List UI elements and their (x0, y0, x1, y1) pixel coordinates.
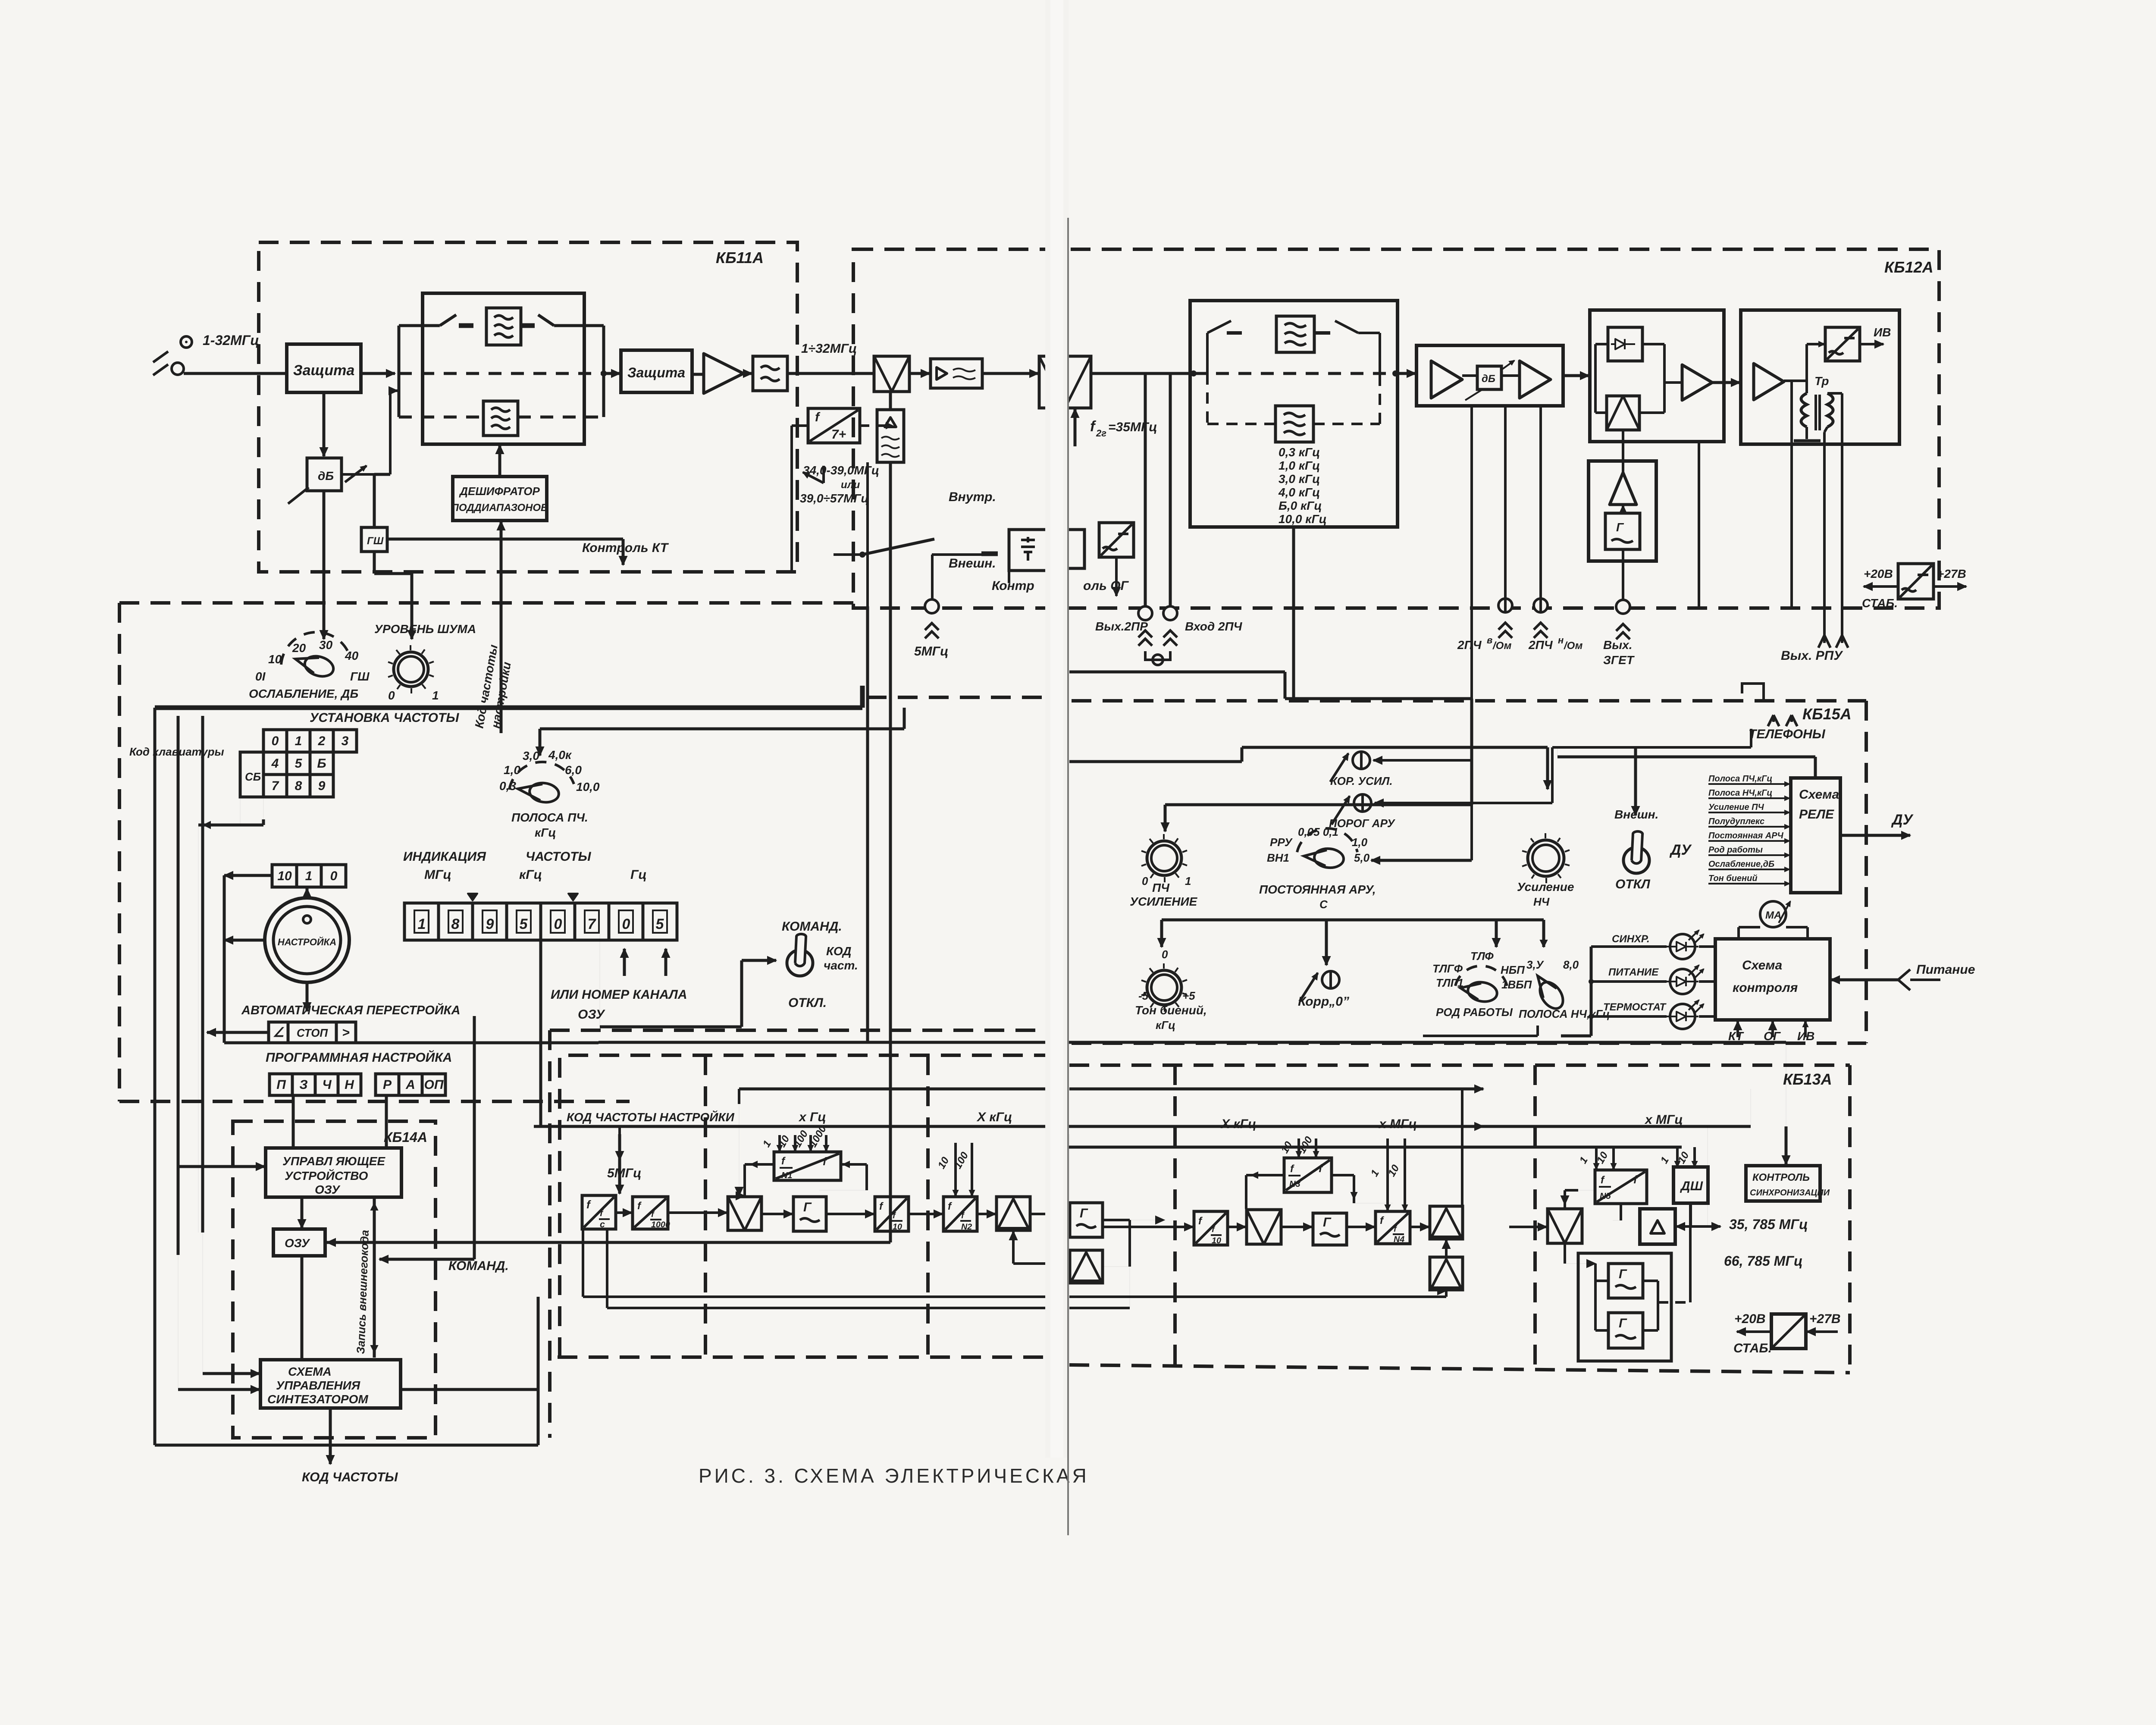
amplifier A6 (1610, 473, 1636, 505)
amplifier A4.1 (1431, 361, 1462, 398)
svg-text:=35МГц: =35МГц (1108, 420, 1157, 434)
block AGC detector group U8 (1590, 310, 1724, 442)
filter Z3 output lowpass (753, 356, 787, 391)
wire lower bracket (1162, 919, 1544, 922)
label +20В stab2 (1737, 1330, 1771, 1333)
arrow heterodyne range (803, 472, 824, 483)
wire N1 feedback (745, 1163, 773, 1166)
mixer up 2 U32 (1430, 1257, 1463, 1290)
svg-text:или: или (841, 479, 860, 491)
svg-text:ИВ: ИВ (1874, 326, 1891, 339)
label +27В (1934, 585, 1966, 588)
svg-text:УСТАНОВКА ЧАСТОТЫ: УСТАНОВКА ЧАСТОТЫ (310, 711, 459, 725)
svg-text:Контр: Контр (992, 579, 1034, 593)
svg-text:УПРАВЛЕНИЯ: УПРАВЛЕНИЯ (276, 1379, 360, 1392)
svg-text:РЕЛЕ: РЕЛЕ (1799, 807, 1834, 822)
screw КОР УСИЛ (1353, 752, 1370, 769)
wire kb13 left out (596, 1040, 597, 1041)
preset row 10/1/0 (272, 865, 297, 887)
wire ОЗУ right (327, 1241, 890, 1244)
wire divider dashed out (860, 424, 893, 427)
wire команд long line (599, 1041, 1786, 1044)
wire настройка down (306, 982, 309, 1011)
svg-text:N2: N2 (961, 1222, 972, 1232)
wire led common (1590, 947, 1593, 1036)
block output amplifier group A7 (1741, 310, 1899, 444)
svg-text:4,0 кГц: 4,0 кГц (1278, 486, 1320, 499)
svg-text:9: 9 (486, 916, 494, 932)
wire f2 column down (866, 462, 869, 606)
svg-text:ОЗУ: ОЗУ (315, 1183, 341, 1196)
wires 1 10 into N5 (1595, 1147, 1598, 1169)
wire lower path dashed (399, 416, 483, 419)
block reference capacitor oscillator (1009, 530, 1047, 571)
svg-text:7+: 7+ (831, 427, 846, 442)
wire дБ to subband filter bank (342, 473, 390, 476)
svg-text:кГц: кГц (519, 868, 542, 882)
panel divider dashed (867, 696, 1045, 699)
svg-text:Внешн.: Внешн. (1614, 808, 1658, 821)
svg-text:0,05 0,1: 0,05 0,1 (1298, 825, 1338, 838)
svg-text:НЧ: НЧ (1533, 895, 1550, 908)
mixer U5 first mixer (874, 356, 909, 392)
svg-text:Усиление ПЧ: Усиление ПЧ (1708, 803, 1764, 812)
svg-text:Вход 2ПЧ: Вход 2ПЧ (1185, 620, 1243, 633)
svg-text:АВТОМАТИЧЕСКАЯ ПЕРЕСТРОЙКА: АВТОМАТИЧЕСКАЯ ПЕРЕСТРОЙКА (241, 1002, 460, 1017)
svg-text:ОГ: ОГ (1764, 1029, 1781, 1043)
svg-text:Тр: Тр (1814, 374, 1829, 388)
svg-text:Защита: Защита (293, 362, 354, 379)
svg-text:дБ: дБ (318, 469, 334, 483)
block СХЕМА УПРАВЛЕНИЯ СИНТЕЗАТОРОМ U14 (260, 1360, 401, 1408)
wire agc internal (1595, 343, 1608, 345)
wire amp chain (1462, 374, 1477, 377)
wire ЗАЩИТА to filter group (361, 372, 395, 375)
arrows channel number (623, 949, 626, 976)
КБ13А right part boundary (1069, 1063, 1850, 1067)
wires 1 10 into ДШ (1676, 1147, 1679, 1167)
svg-text:ОЗУ: ОЗУ (578, 1007, 605, 1022)
wire mixer up input (1012, 1231, 1015, 1264)
block ДЕШИФРАТОР ПОДДИАПАЗОНОВ U3 (453, 477, 547, 521)
wire into divider (792, 424, 808, 427)
svg-text:ПОДДИАПАЗОНОВ: ПОДДИАПАЗОНОВ (451, 502, 548, 514)
wire Δ filter down (889, 462, 892, 606)
svg-text:контроля: контроля (1733, 981, 1798, 995)
svg-text:40: 40 (345, 649, 359, 662)
svg-text:+20В: +20В (1864, 567, 1893, 580)
svg-text:ПРОГРАММНАЯ НАСТРОЙКА: ПРОГРАММНАЯ НАСТРОЙКА (266, 1050, 452, 1065)
svg-text:1: 1 (295, 734, 302, 748)
generator Г U40 (1608, 1313, 1643, 1348)
svg-text:5МГц: 5МГц (914, 644, 948, 659)
svg-text:10: 10 (277, 869, 292, 883)
wire дш to delta (1689, 1203, 1692, 1226)
wire контроллер to ОЗУ (301, 1197, 304, 1228)
svg-text:ИВ: ИВ (1797, 1029, 1814, 1043)
svg-text:СИНХРОНИЗАЦИИ: СИНХРОНИЗАЦИИ (1750, 1188, 1830, 1198)
svg-text:1-32МГц: 1-32МГц (203, 332, 259, 348)
block СТАБ power converter U11 (1898, 564, 1934, 599)
feedthrough connector Вых ЗГЕТ (1616, 600, 1630, 614)
svg-text:КБ13А: КБ13А (1783, 1070, 1832, 1088)
svg-text:КБ12А: КБ12А (1884, 258, 1934, 276)
svg-text:8,0: 8,0 (1563, 958, 1579, 971)
svg-text:ТЛГФ: ТЛГФ (1432, 962, 1463, 975)
svg-text:ДШ: ДШ (1680, 1179, 1703, 1193)
amplifier A2 (704, 354, 743, 393)
svg-text:ОТКЛ.: ОТКЛ. (788, 996, 827, 1010)
svg-text:Защита: Защита (627, 365, 685, 380)
wire to amplifier (692, 373, 704, 376)
wire стоп left (207, 1031, 268, 1034)
wire upper bracket ПЧ усиление (1165, 803, 1472, 806)
svg-text:ПОЛОСА ПЧ.: ПОЛОСА ПЧ. (511, 811, 588, 824)
svg-text:КОД ЧАСТОТЫ: КОД ЧАСТОТЫ (302, 1470, 398, 1484)
svg-text:10,0: 10,0 (576, 780, 600, 793)
block ИВ converter U10 (1825, 327, 1860, 361)
wire 1-32МГц to mixer 1 (787, 372, 874, 375)
wire mixer down to Г block (1564, 1244, 1566, 1264)
svg-text:0: 0 (554, 916, 562, 932)
block СХЕМА РЕЛЕ U15 (1791, 778, 1840, 893)
block f/7+ divider U7 (808, 408, 860, 443)
svg-text:КБ15А: КБ15А (1802, 705, 1852, 723)
svg-text:ТЛФ: ТЛФ (1470, 950, 1494, 963)
amplifier A5 (1682, 365, 1712, 400)
svg-text:ГШ: ГШ (367, 535, 384, 547)
svg-text:Внутр.: Внутр. (949, 490, 996, 504)
svg-text:СТАБ.: СТАБ. (1733, 1341, 1772, 1355)
svg-text:ОЗУ: ОЗУ (285, 1236, 310, 1250)
svg-text:КОНТРОЛЬ: КОНТРОЛЬ (1752, 1172, 1810, 1183)
svg-text:8: 8 (451, 916, 460, 932)
wire down Вых 2ПР (1144, 373, 1147, 606)
svg-text:3,0: 3,0 (523, 749, 539, 762)
wire right page bus vertical (1750, 1089, 1751, 1126)
svg-text:Контроль КТ: Контроль КТ (582, 541, 669, 555)
module boundary КБ15А (1072, 699, 1866, 703)
wire кор усил (1373, 759, 1472, 762)
svg-text:X кГц: X кГц (1220, 1117, 1256, 1131)
wire 2ПЧ в/Ом (1504, 406, 1507, 612)
wire mixer2 out to IF connectors (1091, 372, 1170, 375)
wire mixer1 to Δ filter (889, 392, 892, 410)
svg-text:КОМАНД.: КОМАНД. (782, 919, 842, 934)
svg-text:-5: -5 (1138, 989, 1149, 1002)
svg-text:ПОЛОСА НЧ,кГц: ПОЛОСА НЧ,кГц (1519, 1007, 1610, 1020)
switch S1 upper path (399, 324, 440, 327)
block ГШ noise generator U4 (361, 527, 387, 552)
svg-text:1÷32МГц: 1÷32МГц (801, 342, 857, 356)
rotary ПОЛОСА НЧ (1535, 976, 1567, 1013)
generator Г U20 (793, 1197, 826, 1231)
block at seam (1059, 530, 1084, 568)
wire filter bank bottom to НЧ (1292, 527, 1295, 606)
wire delta out (1675, 1225, 1708, 1228)
wire synth long feedback top (533, 1126, 534, 1127)
svg-text:6,0: 6,0 (565, 763, 582, 777)
wire display down (539, 940, 542, 1126)
svg-text:УПРАВЛ ЯЮЩЕЕ: УПРАВЛ ЯЮЩЕЕ (282, 1154, 385, 1168)
wire mixer1 to amp filter (909, 372, 930, 375)
svg-text:1: 1 (418, 916, 426, 932)
label +27В stab2 (1807, 1330, 1838, 1333)
block ЗАЩИТА (input protection) U1 (287, 344, 361, 392)
svg-text:КОМАНД.: КОМАНД. (448, 1259, 509, 1273)
wire out amp (1784, 379, 1807, 382)
wire agc out (1712, 381, 1740, 384)
filter Z5 IF filter upper (1276, 316, 1314, 352)
wire N5 to delta (1620, 1204, 1622, 1220)
svg-text:3,У: 3,У (1526, 958, 1545, 971)
svg-text:СИНТЕЗАТОРОМ: СИНТЕЗАТОРОМ (267, 1393, 368, 1406)
svg-text:ИНДИКАЦИЯ: ИНДИКАЦИЯ (403, 850, 486, 864)
wire КОД ЧАСТОТЫ down (329, 1408, 332, 1464)
block amp+filter A3 (931, 359, 982, 388)
svg-text:10: 10 (893, 1222, 902, 1232)
svg-text:оль ОГ: оль ОГ (1083, 579, 1129, 593)
svg-text:ПОРОГ АРУ: ПОРОГ АРУ (1329, 817, 1396, 830)
svg-text:10: 10 (268, 652, 282, 666)
svg-text:0: 0 (1162, 948, 1168, 961)
svg-text:+20В: +20В (1734, 1312, 1766, 1326)
block IF amplifier group A4 (1416, 345, 1563, 406)
wire feedback right bus (1069, 1088, 1483, 1091)
svg-text:10: 10 (1212, 1236, 1221, 1245)
svg-text:х Гц: х Гц (798, 1110, 826, 1124)
divider f/1000 U18 (633, 1197, 668, 1229)
svg-text:Полудуплекс: Полудуплекс (1708, 817, 1764, 826)
wire дисплей bus right (866, 606, 869, 1043)
svg-text:н: н (1558, 635, 1564, 646)
front panel boundary (119, 601, 853, 605)
wire IF amp out (1563, 374, 1589, 377)
module boundary КБ12А (853, 249, 1939, 608)
block дБ attenuator A1 (307, 458, 342, 491)
svg-text:Род работы: Род работы (1708, 845, 1763, 855)
wire agc box down (1698, 442, 1700, 606)
svg-text:4,0к: 4,0к (548, 748, 572, 762)
wire gen down to connector (1622, 549, 1624, 561)
wire gen pair (1594, 1264, 1597, 1330)
attenuator дБ A4.2 (1477, 366, 1501, 389)
wire запись arrows (373, 1197, 376, 1358)
wire ГШ output (387, 538, 623, 541)
generator block pair enclosure (1578, 1253, 1671, 1361)
svg-text:с: с (600, 1219, 605, 1229)
block СХЕМА КОНТРОЛЯ U16 (1715, 939, 1830, 1020)
svg-text:СХЕМА: СХЕМА (288, 1365, 332, 1378)
svg-text:5: 5 (656, 916, 664, 932)
keypad Р А ОП (376, 1074, 399, 1095)
wire synth control out right (401, 1388, 538, 1391)
svg-text:1,0 кГц: 1,0 кГц (1279, 459, 1320, 472)
mixer up U23 (997, 1197, 1030, 1230)
wire ДУ out (1840, 834, 1910, 837)
wire agc control down (1470, 406, 1473, 860)
connector Вых РПУ (1823, 635, 1826, 643)
wire feedback bus up (739, 1088, 1045, 1091)
IF filter bank enclosure (1190, 301, 1398, 527)
wire конв down arrow (1115, 557, 1118, 596)
wire to mixer2 (982, 372, 1038, 375)
mixer U19 (728, 1197, 761, 1230)
main control bus thick line (155, 706, 862, 710)
svg-text:КБ11А: КБ11А (716, 249, 764, 267)
svg-text:С: С (1319, 898, 1328, 911)
svg-text:20: 20 (292, 641, 306, 655)
svg-text:ДУ: ДУ (1669, 842, 1692, 858)
svg-text:0I: 0I (255, 670, 266, 683)
svg-text:1ВБП: 1ВБП (1501, 978, 1532, 991)
wire bus into controller (178, 1165, 265, 1168)
svg-text:РИС. 3. СХЕМА ЭЛЕКТРИЧЕСКАЯ: РИС. 3. СХЕМА ЭЛЕКТРИЧЕСКАЯ (699, 1465, 1089, 1487)
mixer up U31 (1430, 1206, 1463, 1239)
wire antenna to ЗАЩИТА (184, 372, 287, 375)
svg-text:2: 2 (318, 734, 326, 748)
divider f/N4 U30 (1376, 1211, 1410, 1244)
svg-text:Усиление: Усиление (1517, 880, 1574, 894)
keypad УСТАНОВКА ЧАСТОТЫ (263, 730, 287, 752)
svg-text:Б,0 кГц: Б,0 кГц (1279, 499, 1322, 512)
block Δ filter Z4 (877, 410, 904, 462)
svg-text:КТ: КТ (1728, 1029, 1745, 1043)
svg-text:ТЕРМОСТАТ: ТЕРМОСТАТ (1603, 1001, 1667, 1013)
mixer U6 second mixer (at page seam) (1039, 356, 1091, 408)
svg-text:КОД: КОД (826, 944, 851, 958)
block КОНТРОЛЬ СИНХРОНИЗАЦИИ U38 (1746, 1166, 1820, 1201)
svg-text:ОТКЛ: ОТКЛ (1615, 877, 1651, 891)
wire ЗАЩИТА down to дБ attenuator (323, 392, 326, 456)
wire to команд toggle (600, 1026, 742, 1029)
svg-text:0: 0 (388, 689, 395, 702)
divider f/10 U27 (1194, 1211, 1228, 1245)
svg-text:Код клавиатуры: Код клавиатуры (129, 745, 224, 758)
svg-text:Г: Г (1619, 1267, 1627, 1281)
svg-text:5МГц: 5МГц (607, 1166, 641, 1180)
wire divider chain (616, 1211, 632, 1214)
wire осн из КБ14А (596, 1042, 597, 1043)
wire 5МГц connector up (931, 555, 934, 604)
divider f/f÷ U17 (582, 1195, 616, 1229)
wire transformer secondary (1827, 392, 1842, 395)
svg-text:кГц: кГц (1156, 1019, 1175, 1032)
svg-text:КОД ЧАСТОТЫ НАСТРОЙКИ: КОД ЧАСТОТЫ НАСТРОЙКИ (567, 1110, 735, 1124)
block ОЗУ U13 (273, 1229, 325, 1256)
wire filter bank to ЗАЩИТА 2 (601, 370, 607, 376)
svg-text:дБ: дБ (1482, 373, 1495, 385)
svg-text:СИНХР.: СИНХР. (1612, 933, 1650, 945)
svg-text:ОП: ОП (424, 1078, 444, 1092)
svg-text:ПИТАНИЕ: ПИТАНИЕ (1608, 966, 1659, 978)
svg-text:З: З (299, 1078, 307, 1092)
block УПРАВЛЯЮЩЕЕ УСТРОЙСТВО ОЗУ U12 (266, 1148, 401, 1197)
net label ИВ (1860, 343, 1883, 345)
wire реле top (1814, 757, 1817, 778)
wire gen right (1103, 1219, 1130, 1221)
wire команда into ОЗУ (379, 1258, 474, 1261)
generator U29 (1313, 1213, 1347, 1245)
wire preset row (224, 874, 272, 877)
svg-text:1000: 1000 (651, 1220, 670, 1229)
svg-text:0: 0 (622, 916, 630, 932)
svg-text:Схема: Схема (1742, 958, 1782, 972)
wire ГШ to дБ line (373, 474, 376, 527)
svg-text:Н: Н (345, 1078, 354, 1092)
svg-text:Г: Г (1619, 1316, 1627, 1330)
svg-text:/Ом: /Ом (1564, 640, 1583, 652)
svg-text:КБ14А: КБ14А (384, 1129, 427, 1145)
svg-text:МГц: МГц (424, 868, 451, 882)
svg-text:Г: Г (803, 1200, 812, 1214)
wires 1 10 100 1000 into N1 (778, 1135, 781, 1151)
wire Р А ОП to controller (385, 1095, 388, 1148)
generator Г U9.1 (1605, 513, 1640, 549)
led ТЕРМОСТАТ (1670, 1004, 1695, 1029)
knob НАСТРОЙКА tuning dial (265, 898, 349, 982)
feedthrough connector 5МГц (925, 599, 939, 613)
svg-text:РРУ: РРУ (1270, 836, 1293, 849)
wire gen to f10 (826, 1213, 874, 1215)
svg-text:Г: Г (1323, 1215, 1332, 1229)
svg-text:+27В: +27В (1809, 1312, 1841, 1326)
rotary ПОЛОСА ПЧ selector (509, 762, 574, 790)
svg-text:>: > (342, 1026, 350, 1040)
svg-text:10,0 кГц: 10,0 кГц (1279, 512, 1327, 526)
keypad СТОП (269, 1022, 288, 1043)
wires into synth control (203, 1372, 260, 1375)
svg-text:Внешн.: Внешн. (949, 556, 996, 571)
mixer U8.2 (1607, 396, 1639, 430)
svg-text:КОР. УСИЛ.: КОР. УСИЛ. (1330, 775, 1393, 787)
bus verticals to synthesizer control (154, 708, 157, 1445)
divider f/N5 U34 (1595, 1170, 1647, 1204)
wires 10 100 into N3 (1297, 1138, 1300, 1157)
rotary selector ОСЛАБЛЕНИЕ ДБ (281, 632, 351, 665)
svg-text:1,0: 1,0 (504, 763, 520, 777)
svg-text:част.: част. (824, 959, 858, 972)
svg-text:ДУ: ДУ (1891, 812, 1914, 828)
svg-text:Г: Г (1080, 1206, 1088, 1220)
rotary ПОСТОЯННАЯ АРУ (1297, 828, 1357, 852)
svg-text:X кГц: X кГц (976, 1110, 1012, 1124)
amplifier A7.1 (1754, 364, 1784, 400)
wire amp to output filter (743, 372, 752, 375)
svg-text:Тон биений: Тон биений (1708, 874, 1758, 883)
svg-text:Вых.: Вых. (1603, 638, 1632, 652)
svg-text:УСТРОЙСТВО: УСТРОЙСТВО (285, 1169, 368, 1182)
wires 1 10 into N4 (1386, 1138, 1389, 1211)
label +20В (1864, 585, 1897, 588)
switch S2 upper path (521, 323, 535, 328)
svg-text:х МГц: х МГц (1378, 1117, 1417, 1131)
wire amp to mixer (1622, 430, 1624, 473)
wire контроль синхр input (1785, 1126, 1788, 1164)
svg-text:Постоянная АРЧ: Постоянная АРЧ (1708, 831, 1784, 841)
svg-text:МА: МА (1765, 910, 1781, 921)
frequency code bus (534, 1125, 1751, 1128)
amp U26 (1070, 1250, 1103, 1283)
wire right page feedback bottom (1069, 1295, 1446, 1298)
svg-text:ЧАСТОТЫ: ЧАСТОТЫ (526, 850, 592, 864)
svg-text:ИЛИ НОМЕР КАНАЛА: ИЛИ НОМЕР КАНАЛА (551, 988, 687, 1002)
svg-text:РОД РАБОТЫ: РОД РАБОТЫ (1436, 1006, 1513, 1019)
wire gen to amp (1622, 505, 1624, 513)
wire delta to n5 feedback (1613, 1220, 1621, 1221)
diode detector VD1 (1608, 327, 1642, 361)
switch S4 upper right (1314, 331, 1330, 335)
